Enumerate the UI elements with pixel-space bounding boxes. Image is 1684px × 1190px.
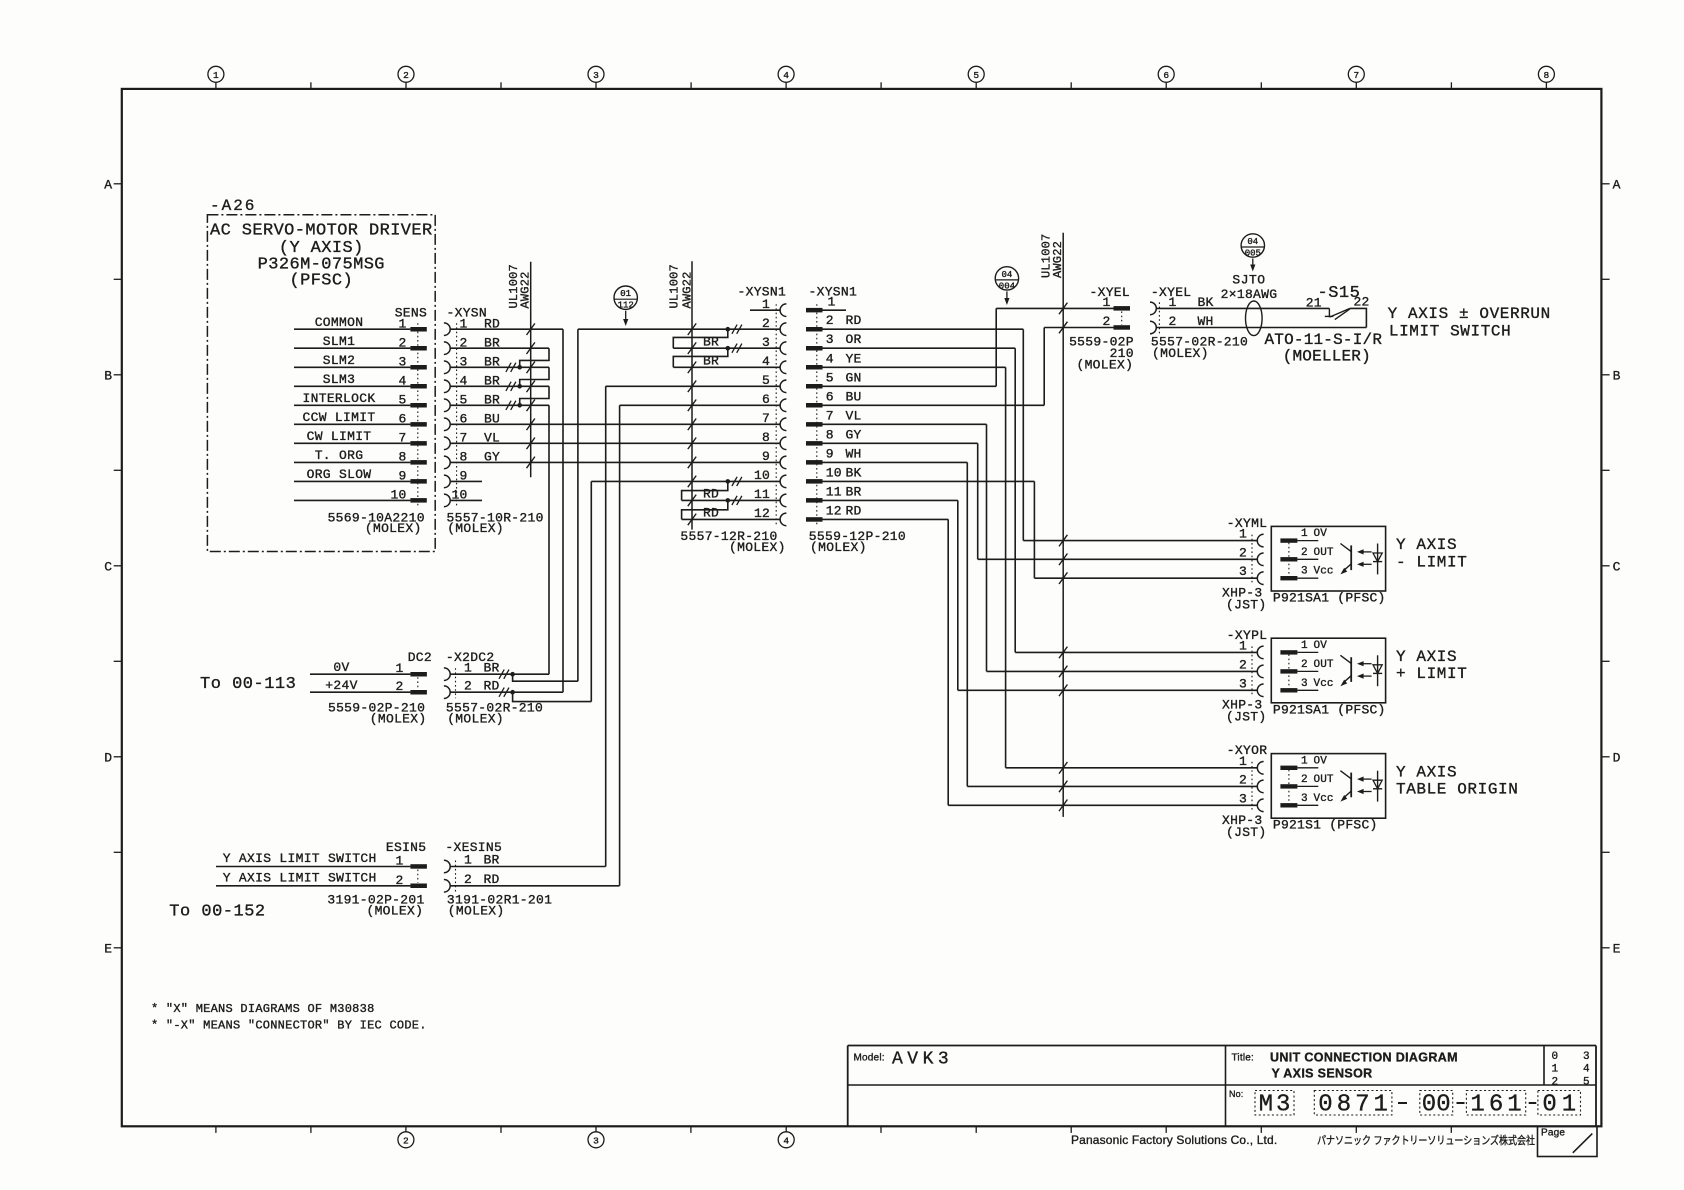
svg-text:4: 4 <box>1583 1064 1590 1076</box>
U-XYPL pin 1 OV <box>1280 640 1327 655</box>
-XYSN1 plug pin 4 YE <box>806 351 862 369</box>
-XYSN1 receptacle socket pin 12 <box>754 506 786 526</box>
-XYSN1 plug pin 7 VL <box>806 408 862 426</box>
switch type ATO-11-S-I/R (MOELLER) <box>1265 331 1383 366</box>
-XYSN socket pin 1 RD <box>444 316 500 335</box>
-XYML dotted line <box>1251 535 1253 585</box>
svg-text:(MOLEX): (MOLEX) <box>447 711 504 726</box>
svg-text:AWG22: AWG22 <box>1051 241 1065 278</box>
-XYOR socket pin 2 <box>1239 772 1264 792</box>
-XYSN1 receptacle socket pin 9 <box>762 449 786 469</box>
svg-text:E: E <box>1613 942 1621 957</box>
-XYEL plug pin 2 <box>1102 314 1130 330</box>
block -A26 AC servo-motor driver dash-dot outline <box>207 197 435 552</box>
wire XYSN-8 GY to -XYSN1-9 <box>451 461 780 463</box>
svg-text:1: 1 <box>1507 1092 1521 1119</box>
svg-text:1: 1 <box>1562 1092 1576 1119</box>
svg-text:P921SA1 (PFSC): P921SA1 (PFSC) <box>1273 591 1386 606</box>
SENS pin 1 COMMON <box>294 315 427 332</box>
svg-text:D: D <box>1613 751 1621 766</box>
wire -XYSN1-2 RD to -XYML-1 <box>823 329 1024 540</box>
U-XYPL pin dotted line <box>1288 654 1290 688</box>
title block outline <box>848 1046 1596 1127</box>
-XYSN1 receptacle socket pin 2 <box>762 316 786 336</box>
svg-text:3: 3 <box>1239 791 1247 806</box>
svg-text:A: A <box>1613 178 1621 193</box>
svg-text:Y AXIS ± OVERRUN: Y AXIS ± OVERRUN <box>1388 305 1551 323</box>
svg-text:9: 9 <box>826 446 834 461</box>
svg-text:AWG22: AWG22 <box>519 271 533 308</box>
svg-text:No:: No: <box>1229 1089 1243 1099</box>
-XYOR dotted line <box>1251 762 1253 812</box>
row markers right A-E <box>1601 178 1620 957</box>
-XYEL plug pin 1 <box>1102 295 1130 311</box>
-XYML socket pin 3 <box>1239 564 1264 584</box>
cable no.3 wire-count slashes <box>1059 303 1067 811</box>
-XESIN5 socket pin 1 BR <box>444 853 606 873</box>
svg-text:ATO-11-S-I/R: ATO-11-S-I/R <box>1265 331 1383 349</box>
wire XYSN-1 RD down to -X2DC2-2 <box>451 329 563 692</box>
svg-text:OR: OR <box>846 332 862 347</box>
wire -XYSN1-3 OR to -XYPL-1 <box>823 348 1016 652</box>
-XYSN1 plug pin 9 WH <box>806 446 862 464</box>
title block sheet numbers <box>1552 1051 1591 1089</box>
cable line UL1007 AWG22 no.3 <box>1040 233 1066 817</box>
-XYEL plug dotted line <box>1121 311 1123 324</box>
svg-text:Y AXIS LIMIT SWITCH: Y AXIS LIMIT SWITCH <box>223 851 377 866</box>
svg-text:(PFSC): (PFSC) <box>289 272 353 291</box>
svg-text:Y AXIS: Y AXIS <box>1396 763 1457 781</box>
U-XYPL phototransistor <box>1340 655 1351 686</box>
-XYSN1 receptacle socket pin 6 <box>762 392 786 412</box>
svg-text:OUT: OUT <box>1314 547 1334 559</box>
svg-text:3: 3 <box>762 335 770 350</box>
-XESIN5 part number 3191-02R1-201 (MOLEX) <box>447 892 552 918</box>
svg-text:7: 7 <box>762 411 770 426</box>
-XYSN socket pin 6 BU <box>444 412 500 431</box>
svg-text:LIMIT SWITCH: LIMIT SWITCH <box>1389 322 1511 340</box>
svg-text:Y AXIS LIMIT SWITCH: Y AXIS LIMIT SWITCH <box>223 870 377 885</box>
svg-text:0V: 0V <box>333 660 349 675</box>
svg-text:Vcc: Vcc <box>1314 793 1334 805</box>
svg-text:1: 1 <box>1239 527 1247 542</box>
svg-text:AWG22: AWG22 <box>680 271 694 308</box>
svg-text:UL1007: UL1007 <box>667 264 681 308</box>
page cell <box>1538 1126 1598 1156</box>
svg-text:OUT: OUT <box>1314 659 1334 671</box>
svg-text:2: 2 <box>1239 657 1247 672</box>
-XYSN socket pin 10 <box>444 488 468 507</box>
wire -XYSN1-7 VL to -XYPL-2 <box>823 424 987 671</box>
svg-text:3: 3 <box>593 1136 599 1147</box>
svg-text:C: C <box>104 560 112 575</box>
svg-text:1: 1 <box>1301 755 1308 767</box>
svg-text:BR: BR <box>703 334 719 349</box>
cable SJTO oval <box>1246 301 1263 336</box>
svg-text:7: 7 <box>826 408 834 423</box>
wire -XYSN1-12 RD to -XYOR-3 <box>823 519 949 805</box>
svg-text:RD: RD <box>484 872 500 887</box>
svg-text:2: 2 <box>1301 547 1308 559</box>
svg-text:04: 04 <box>1001 270 1012 280</box>
-XYSN1 plug pin 8 GY <box>806 427 862 445</box>
svg-text:To 00-113: To 00-113 <box>200 675 296 694</box>
SENS pin 4 SLM3 <box>294 372 427 388</box>
svg-text:Title:: Title: <box>1232 1053 1255 1064</box>
U-XYOR phototransistor <box>1340 771 1351 802</box>
svg-text:2×18AWG: 2×18AWG <box>1221 287 1278 302</box>
jumper -XYSN1 pin2 to pin3 <box>673 329 728 348</box>
svg-text:3: 3 <box>826 332 834 347</box>
svg-text:Panasonic Factory Solutions Co: Panasonic Factory Solutions Co., Ltd. <box>1071 1133 1277 1147</box>
-XYPL socket pin 3 <box>1239 676 1264 696</box>
svg-text:T. ORG: T. ORG <box>315 448 364 463</box>
cable line UL1007 AWG22 no.1 <box>507 262 533 478</box>
svg-text:(JST): (JST) <box>1226 825 1267 840</box>
jumper -XYSN1 pin10 to pin11 <box>682 481 728 500</box>
-XYSN connector dotted line <box>456 323 458 506</box>
svg-text:1: 1 <box>1301 528 1308 540</box>
svg-text:INTERLOCK: INTERLOCK <box>303 391 376 406</box>
svg-text:BU: BU <box>846 389 862 404</box>
svg-text:Model:: Model: <box>854 1053 885 1064</box>
ESIN5 dotted line <box>417 870 419 883</box>
svg-text:RD: RD <box>703 506 719 521</box>
-XYSN socket pin 4 BR <box>444 374 500 393</box>
photo sensor U-XYPL box <box>1271 638 1385 703</box>
svg-text:AVK3: AVK3 <box>892 1050 953 1070</box>
svg-text:BR: BR <box>846 484 862 499</box>
SENS pin 9 ORG SLOW <box>294 467 427 483</box>
svg-text:3: 3 <box>1583 1051 1590 1063</box>
row markers left A-E <box>104 178 122 957</box>
switch -S15 terminal 21 <box>1306 295 1334 317</box>
svg-text:4: 4 <box>762 354 770 369</box>
block -A26 title text <box>210 222 433 291</box>
-XYSN socket pin 9 <box>444 469 468 488</box>
-XYSN socket pin 8 GY <box>444 450 500 469</box>
wire -XYSN1-5 GN up to -XYEL-1 <box>823 308 1114 386</box>
svg-text:1: 1 <box>1373 1092 1387 1119</box>
wire -XYSN1-10 BK to -XYML-3 <box>823 481 1035 578</box>
SENS pin 10 <box>294 488 427 503</box>
svg-text:TABLE ORIGIN: TABLE ORIGIN <box>1396 781 1518 799</box>
svg-text:12: 12 <box>754 506 770 521</box>
svg-text:(MOLEX): (MOLEX) <box>729 540 786 555</box>
svg-text:1: 1 <box>828 295 836 310</box>
svg-text:OV: OV <box>1314 528 1328 540</box>
-XESIN5 dotted line <box>455 861 457 892</box>
wire -XYSN1-10 BK riser to -X2DC2-2 <box>591 477 780 702</box>
svg-text:RD: RD <box>703 487 719 502</box>
svg-text:3: 3 <box>1301 566 1308 578</box>
svg-text:COMMON: COMMON <box>315 315 364 330</box>
svg-text:6: 6 <box>1489 1092 1503 1119</box>
svg-text:DC2: DC2 <box>408 650 432 665</box>
svg-text:2: 2 <box>1301 659 1308 671</box>
svg-text:1: 1 <box>464 853 472 868</box>
svg-text:Y AXIS: Y AXIS <box>1396 648 1457 666</box>
U-XYOR pin 3 Vcc <box>1280 793 1333 808</box>
svg-text:* "X" MEANS DIAGRAMS OF M30838: * "X" MEANS DIAGRAMS OF M30838 <box>151 1002 375 1016</box>
svg-text:4: 4 <box>783 1136 789 1147</box>
-XYSN part number 5557-10R-210 (MOLEX) <box>447 510 544 536</box>
svg-text:2: 2 <box>1239 545 1247 560</box>
-XYOR type XHP-3 (JST) <box>1222 813 1267 840</box>
svg-text:3: 3 <box>1301 678 1308 690</box>
svg-text:1: 1 <box>1552 1064 1559 1076</box>
balloon reference 04/004 <box>995 267 1018 290</box>
svg-text:(MOLEX): (MOLEX) <box>365 521 422 536</box>
ESIN5 pin 2 Y AXIS LIMIT SWITCH <box>216 870 427 888</box>
svg-text:BR: BR <box>703 354 719 369</box>
svg-text:10: 10 <box>754 468 770 483</box>
-X2DC2 socket pin 1 BR <box>444 661 500 681</box>
wire -XYSN1-3 BR jumper <box>673 334 780 352</box>
svg-text:1: 1 <box>1470 1092 1484 1119</box>
svg-text:AC SERVO-MOTOR DRIVER: AC SERVO-MOTOR DRIVER <box>210 222 433 241</box>
svg-text:4: 4 <box>783 70 789 81</box>
-X2DC2 socket pin 2 RD <box>444 679 500 699</box>
label Y AXIS TABLE ORIGIN <box>1396 763 1518 798</box>
-XYSN1 plug pin 1 <box>806 295 846 313</box>
svg-text:-XYML: -XYML <box>1227 516 1268 531</box>
U-XYML pin 3 Vcc <box>1280 566 1333 581</box>
-XYSN1 plug pin 2 RD <box>806 313 862 331</box>
wire -XYSN1-4 BR jumper <box>673 354 780 369</box>
svg-text:A: A <box>104 178 112 193</box>
column markers top 1-8 <box>208 66 1555 89</box>
DC2 pin 1 0V <box>310 660 427 677</box>
svg-text:Page: Page <box>1541 1128 1565 1139</box>
-XESIN5 socket pin 2 RD <box>444 872 620 892</box>
-X2DC2 dotted line <box>455 668 457 698</box>
wire -XYSN1-11 RD jumper <box>682 487 781 505</box>
svg-text:2: 2 <box>1552 1076 1559 1088</box>
-XYSN1 receptacle socket pin 5 <box>762 373 786 393</box>
-XYEL receptacle pin 2 WH <box>1150 314 1214 334</box>
svg-text:004: 004 <box>999 281 1015 291</box>
-XYSN socket pin 7 VL <box>444 431 500 450</box>
-XYEL receptacle pin 1 BK <box>1150 295 1214 315</box>
svg-text:2: 2 <box>1301 774 1308 786</box>
svg-text:M: M <box>1259 1092 1273 1119</box>
-XYPL socket pin 2 <box>1239 657 1264 677</box>
svg-text:1: 1 <box>1239 754 1247 769</box>
wire -XYSN1-8 GY to -XYML-2 <box>823 443 978 559</box>
svg-text:21: 21 <box>1306 295 1322 310</box>
U-XYOR pin dotted line <box>1288 770 1290 804</box>
-XYSN1 plug dotted line <box>816 304 818 525</box>
U-XYML LED <box>1373 544 1382 575</box>
svg-text:(JST): (JST) <box>1226 709 1267 724</box>
svg-text:0: 0 <box>1552 1051 1559 1063</box>
balloon reference 01/112 <box>614 286 637 309</box>
-XYPL dotted line <box>1251 646 1253 696</box>
switch -S15 terminal 22 and return loop <box>1350 295 1370 328</box>
svg-text:SLM1: SLM1 <box>323 334 355 349</box>
wire XYSN-3 BR with step to pin 4 <box>451 363 549 387</box>
svg-text:SLM3: SLM3 <box>323 372 355 387</box>
svg-text:To 00-152: To 00-152 <box>169 903 265 922</box>
svg-text:2: 2 <box>1102 314 1110 329</box>
-XYSN1 part number 5559-12P-210 (MOLEX) <box>809 529 906 555</box>
svg-text:6: 6 <box>762 392 770 407</box>
svg-text:7: 7 <box>1355 1092 1369 1119</box>
svg-text:0: 0 <box>1318 1092 1332 1119</box>
svg-text:-XYPL: -XYPL <box>1227 628 1268 643</box>
svg-text:0: 0 <box>1436 1092 1450 1119</box>
-XYSN1 receptacle socket pin 4 <box>762 354 786 374</box>
-XYSN socket pin 3 BR <box>444 355 500 374</box>
-XYSN1 plug pin 12 RD <box>806 503 862 521</box>
svg-text:RD: RD <box>846 313 862 328</box>
svg-text:12: 12 <box>826 503 842 518</box>
svg-text:OV: OV <box>1314 755 1328 767</box>
-XYEL plug part number 5559-02P 210 (MOLEX) <box>1069 334 1134 372</box>
U-XYML pin 1 OV <box>1280 528 1327 543</box>
wire -XYSN1-6 BU up to -XYEL-2 <box>823 328 1114 406</box>
svg-text:11: 11 <box>754 487 770 502</box>
cable no.2 wire-count slashes <box>688 323 696 525</box>
wire XYSN-7 VL to -XYSN1-8 <box>451 442 780 444</box>
U-XYOR pin 2 OUT <box>1280 774 1334 789</box>
svg-text:OUT: OUT <box>1314 774 1334 786</box>
SENS pin 7 CW LIMIT <box>294 429 427 446</box>
wire -XYSN1-9 WH to -XYOR-2 <box>823 462 968 786</box>
svg-text:112: 112 <box>618 301 634 311</box>
cable line UL1007 AWG22 no.2 <box>667 261 694 529</box>
svg-text:(MOLEX): (MOLEX) <box>1076 358 1133 373</box>
svg-text:UNIT CONNECTION DIAGRAM: UNIT CONNECTION DIAGRAM <box>1270 1051 1458 1065</box>
svg-text:5: 5 <box>1583 1076 1590 1088</box>
svg-text:C: C <box>1613 560 1621 575</box>
U-XYPL pin 2 OUT <box>1280 659 1334 674</box>
SENS connector pin dotted line <box>417 323 419 506</box>
svg-text:9: 9 <box>762 449 770 464</box>
-XYSN1 receptacle socket pin 3 <box>762 335 786 355</box>
svg-text:CCW LIMIT: CCW LIMIT <box>303 410 376 425</box>
svg-text:Y AXIS: Y AXIS <box>1396 536 1457 554</box>
svg-text:CW LIMIT: CW LIMIT <box>307 429 372 444</box>
svg-text:Vcc: Vcc <box>1314 678 1334 690</box>
svg-text:+ LIMIT: + LIMIT <box>1396 665 1467 683</box>
svg-text:P921S1 (PFSC): P921S1 (PFSC) <box>1273 818 1378 833</box>
-XYSN1 plug pin 3 OR <box>806 332 862 350</box>
U-XYOR LED <box>1373 771 1382 802</box>
wire XYSN-10 stub <box>451 499 482 501</box>
-XYSN1 receptacle socket pin 10 <box>754 468 786 488</box>
svg-text:3: 3 <box>1301 793 1308 805</box>
wire XYSN-4 BR with step to pin 5 <box>451 382 549 406</box>
svg-text:3: 3 <box>593 70 599 81</box>
label Y AXIS + LIMIT <box>1396 648 1467 683</box>
svg-text:005: 005 <box>1245 249 1261 259</box>
svg-text:(MOLEX): (MOLEX) <box>448 904 505 919</box>
-XYSN1 plug pin 11 BR <box>806 484 862 502</box>
svg-text:6: 6 <box>1163 70 1169 81</box>
SENS pin 6 CCW LIMIT <box>294 410 427 427</box>
svg-text:(MOLEX): (MOLEX) <box>370 711 427 726</box>
U-XYOR pin 1 OV <box>1280 755 1327 770</box>
svg-text:(MOLEX): (MOLEX) <box>447 521 504 536</box>
svg-text:-XYOR: -XYOR <box>1227 743 1268 758</box>
svg-text:04: 04 <box>1247 237 1258 247</box>
-XYML type XHP-3 (JST) <box>1222 586 1267 613</box>
-XYSN1 receptacle socket pin 7 <box>762 411 786 431</box>
sensor Y axis minus limit wires into -XYML <box>978 541 1258 579</box>
title block drawing number No M3 0871-00-161-01 <box>1229 1089 1581 1119</box>
svg-text:Vcc: Vcc <box>1314 566 1334 578</box>
wire -XYSN1-2 RD from DC2 BR riser <box>578 325 780 682</box>
svg-text:1: 1 <box>1102 295 1110 310</box>
-XYSN1 receptacle socket pin 11 <box>754 487 786 507</box>
svg-text:0: 0 <box>1422 1092 1436 1119</box>
-X2DC2 part number 5557-02R-210 (MOLEX) <box>446 701 543 727</box>
svg-text:- LIMIT: - LIMIT <box>1396 553 1467 571</box>
svg-text:SJTO: SJTO <box>1232 273 1265 288</box>
ESIN5 pin 1 Y AXIS LIMIT SWITCH <box>216 851 427 869</box>
svg-text:8: 8 <box>826 427 834 442</box>
-XYSN socket pin 2 BR <box>444 335 500 354</box>
DC2 dotted line <box>417 677 419 689</box>
svg-text:P921SA1 (PFSC): P921SA1 (PFSC) <box>1273 702 1386 717</box>
-XYSN1 receptacle socket pin 1 <box>762 297 786 317</box>
svg-text:(MOLEX): (MOLEX) <box>810 540 867 555</box>
-XYSN socket pin 5 BR <box>444 393 500 412</box>
svg-text:10: 10 <box>826 465 842 480</box>
svg-text:1: 1 <box>1301 640 1308 652</box>
svg-text:VL: VL <box>846 408 862 423</box>
svg-text:B: B <box>104 369 112 384</box>
svg-text:(MOLEX): (MOLEX) <box>1152 346 1209 361</box>
-XYSN1 plug pin 5 GN <box>806 370 862 388</box>
svg-text:(MOLEX): (MOLEX) <box>366 904 423 919</box>
svg-text:11: 11 <box>826 484 842 499</box>
-XYSN1 receptacle socket pin 8 <box>762 430 786 450</box>
svg-text:3: 3 <box>1239 564 1247 579</box>
svg-text:Y AXIS SENSOR: Y AXIS SENSOR <box>1271 1067 1372 1081</box>
svg-text:5: 5 <box>973 70 979 81</box>
U-XYML pin dotted line <box>1288 543 1290 577</box>
svg-text:1: 1 <box>1239 638 1247 653</box>
svg-text:1: 1 <box>213 70 219 81</box>
label Y AXIS - LIMIT <box>1396 536 1467 571</box>
sensor Y axis plus limit wires into -XYPL <box>958 652 1258 690</box>
svg-text:8: 8 <box>762 430 770 445</box>
SENS pin 5 INTERLOCK <box>294 391 427 407</box>
sensor Y axis table origin wires into -XYOR <box>948 768 1257 806</box>
svg-text:2: 2 <box>1239 772 1247 787</box>
svg-text:GN: GN <box>846 370 862 385</box>
svg-text:BR: BR <box>484 853 500 868</box>
-XYPL type XHP-3 (JST) <box>1222 697 1267 724</box>
svg-text:ESIN5: ESIN5 <box>386 840 427 855</box>
svg-text:E: E <box>104 942 112 957</box>
svg-text:6: 6 <box>826 389 834 404</box>
-XYOR socket pin 3 <box>1239 791 1264 811</box>
wire -X2DC2-1 BR junction <box>451 670 578 682</box>
-XYEL receptacle dotted line <box>1158 302 1160 333</box>
U-XYPL pin 3 Vcc <box>1280 678 1333 693</box>
svg-text:GY: GY <box>846 427 862 442</box>
wire -XYSN1-5 GN riser to -XESIN5-1 <box>606 386 780 866</box>
U-XYPL light arrows <box>1357 661 1372 679</box>
svg-text:8: 8 <box>1337 1092 1351 1119</box>
-XYPL socket pin 1 <box>1239 638 1264 658</box>
svg-text:01: 01 <box>620 289 631 299</box>
svg-text:4: 4 <box>826 351 834 366</box>
